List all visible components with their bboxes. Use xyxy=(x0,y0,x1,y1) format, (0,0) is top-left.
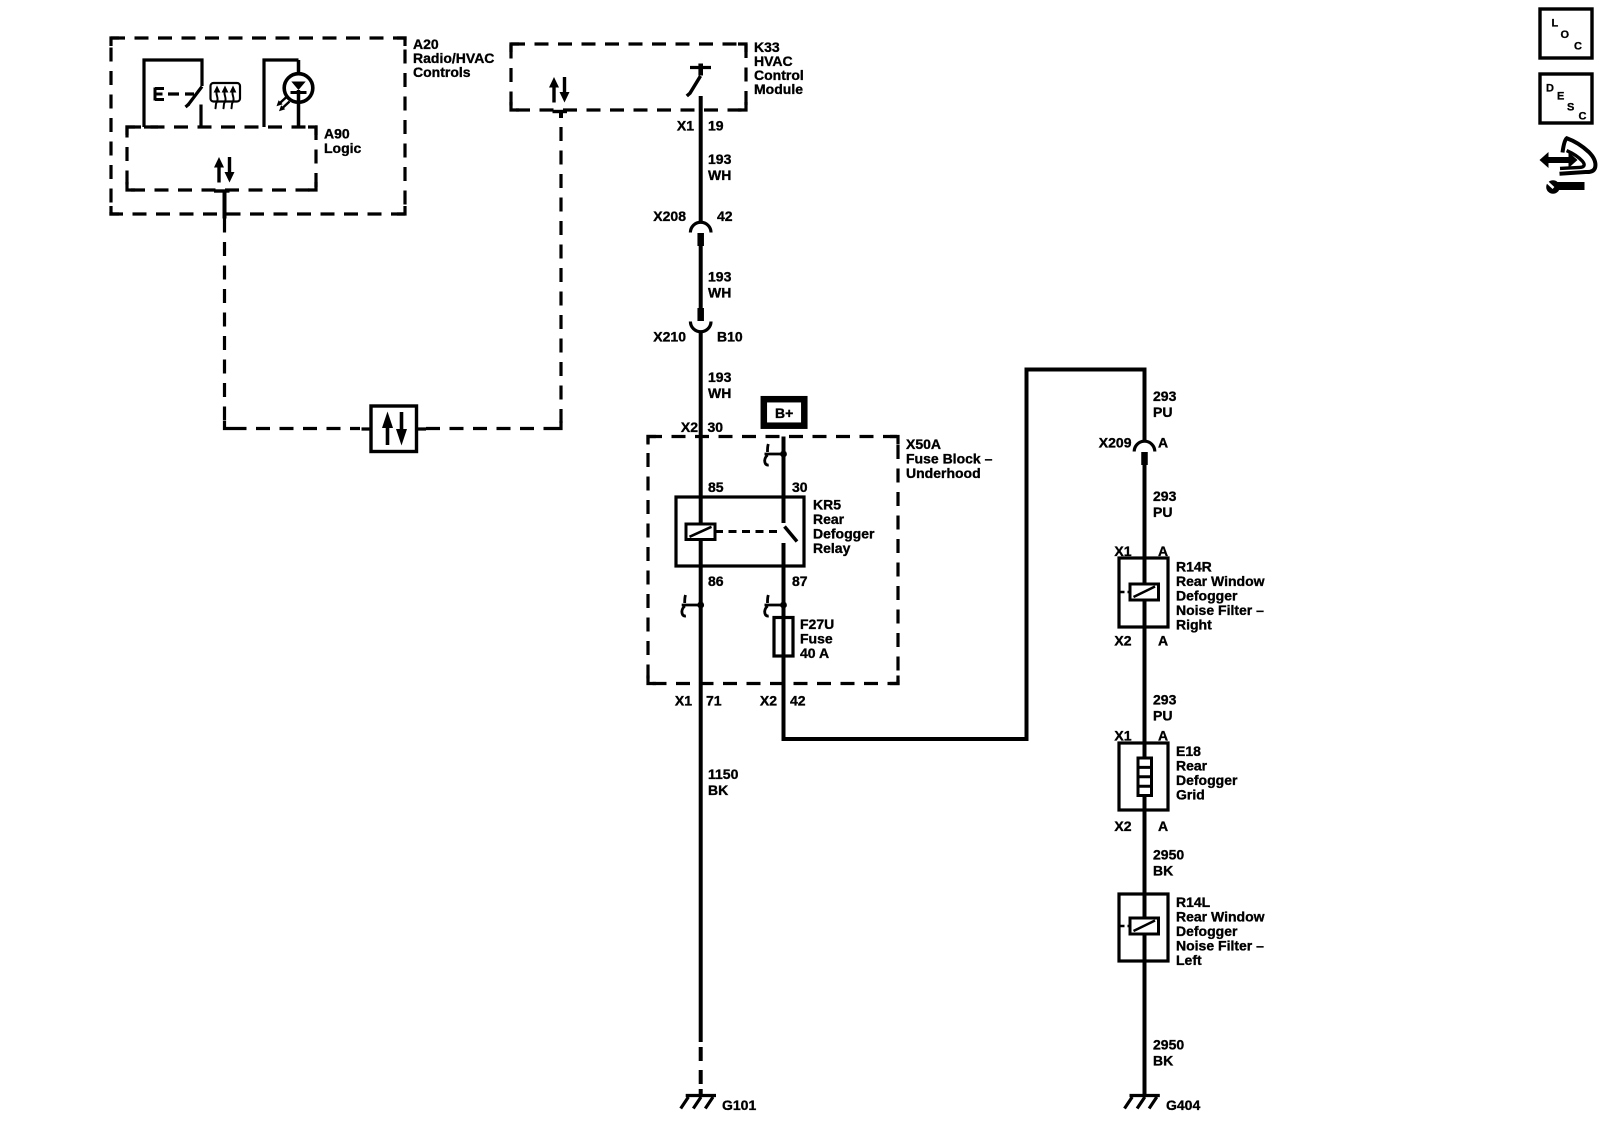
svg-text:Left: Left xyxy=(1176,952,1202,968)
svg-text:Underhood: Underhood xyxy=(906,465,981,481)
svg-text:A: A xyxy=(1158,543,1168,559)
svg-text:193: 193 xyxy=(708,369,732,385)
svg-text:40 A: 40 A xyxy=(800,645,829,661)
svg-text:Logic: Logic xyxy=(324,140,362,156)
svg-text:Grid: Grid xyxy=(1176,787,1205,803)
svg-text:42: 42 xyxy=(790,693,806,709)
svg-text:PU: PU xyxy=(1153,404,1172,420)
svg-text:87: 87 xyxy=(792,573,808,589)
svg-text:A: A xyxy=(1158,435,1168,451)
svg-text:WH: WH xyxy=(708,167,731,183)
svg-text:193: 193 xyxy=(708,269,732,285)
svg-text:X1: X1 xyxy=(1114,543,1131,559)
svg-text:X2: X2 xyxy=(681,419,698,435)
svg-text:PU: PU xyxy=(1153,708,1172,724)
svg-text:WH: WH xyxy=(708,385,731,401)
svg-text:19: 19 xyxy=(708,118,724,134)
svg-text:Controls: Controls xyxy=(413,64,471,80)
svg-text:42: 42 xyxy=(717,208,733,224)
svg-text:B10: B10 xyxy=(717,329,743,345)
svg-text:2950: 2950 xyxy=(1153,847,1184,863)
svg-text:WH: WH xyxy=(708,285,731,301)
svg-text:S: S xyxy=(1567,102,1574,114)
svg-text:BK: BK xyxy=(1153,1053,1173,1069)
svg-text:X2: X2 xyxy=(1114,633,1131,649)
svg-text:X2: X2 xyxy=(1114,818,1131,834)
svg-text:A: A xyxy=(1158,728,1168,744)
svg-text:X208: X208 xyxy=(653,208,686,224)
svg-text:O: O xyxy=(1561,29,1570,41)
svg-text:B+: B+ xyxy=(775,405,793,421)
svg-text:Module: Module xyxy=(754,81,803,97)
svg-text:85: 85 xyxy=(708,479,724,495)
svg-text:E: E xyxy=(1557,91,1564,103)
svg-text:X209: X209 xyxy=(1099,435,1132,451)
svg-text:X2: X2 xyxy=(760,693,777,709)
svg-text:Relay: Relay xyxy=(813,540,851,556)
svg-text:A: A xyxy=(1158,818,1168,834)
svg-text:D: D xyxy=(1546,83,1554,95)
svg-text:A: A xyxy=(1158,633,1168,649)
svg-text:C: C xyxy=(1574,41,1582,53)
svg-text:X1: X1 xyxy=(677,118,694,134)
svg-text:X1: X1 xyxy=(1114,728,1131,744)
svg-text:1150: 1150 xyxy=(708,766,739,782)
svg-text:30: 30 xyxy=(708,419,724,435)
svg-text:X210: X210 xyxy=(653,329,686,345)
svg-text:293: 293 xyxy=(1153,692,1177,708)
svg-text:Right: Right xyxy=(1176,617,1212,633)
svg-text:30: 30 xyxy=(792,479,808,495)
svg-text:G404: G404 xyxy=(1166,1097,1200,1113)
svg-text:C: C xyxy=(1579,111,1587,123)
svg-text:BK: BK xyxy=(708,782,728,798)
svg-text:193: 193 xyxy=(708,151,732,167)
svg-text:L: L xyxy=(1552,18,1559,30)
svg-text:BK: BK xyxy=(1153,863,1173,879)
svg-text:PU: PU xyxy=(1153,504,1172,520)
svg-text:2950: 2950 xyxy=(1153,1037,1184,1053)
svg-text:X1: X1 xyxy=(675,693,692,709)
svg-text:293: 293 xyxy=(1153,488,1177,504)
svg-text:71: 71 xyxy=(706,693,722,709)
svg-text:293: 293 xyxy=(1153,388,1177,404)
svg-text:86: 86 xyxy=(708,573,724,589)
svg-text:G101: G101 xyxy=(722,1097,756,1113)
